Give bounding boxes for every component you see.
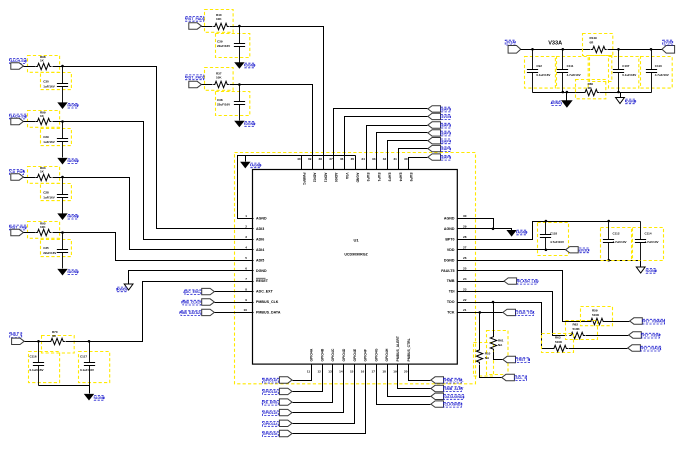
junction C116 [37, 340, 40, 343]
svg-text:DGND: DGND [444, 258, 455, 262]
tag PLT_V3MAIN [630, 318, 643, 324]
net label GPIO10# [263, 432, 279, 437]
net label 3ACH-SW (input 2) [10, 114, 28, 119]
svg-text:RST_PAD1: RST_PAD1 [186, 17, 205, 21]
resistor R149 0R [591, 46, 607, 52]
tag PMB_CTRL [431, 377, 444, 383]
svg-text:DGND: DGND [256, 269, 267, 273]
svg-text:GPIO4B: GPIO4B [320, 348, 324, 361]
AGND label [68, 159, 79, 164]
input tag RST_PAD1 [189, 23, 202, 29]
input tag 3V3A [508, 46, 521, 54]
svg-text:ADI4: ADI4 [256, 248, 264, 252]
yellow box around resistor R99 [28, 111, 60, 128]
ground AGND (filled) [57, 102, 67, 109]
svg-text:GPIO10#: GPIO10# [263, 432, 278, 436]
svg-text:C110: C110 [655, 64, 662, 68]
yellow box around capacitor C117 [79, 352, 110, 383]
svg-text:SMB_ALRT: SMB_ALRT [445, 387, 465, 391]
tag ADC_ENC [202, 288, 215, 294]
wire pin25 FAULT5 to R59 [458, 271, 592, 322]
wire top rail right segment [608, 49, 663, 51]
wire tag to resistor [24, 121, 36, 123]
DGND label [626, 99, 637, 104]
svg-text:17: 17 [372, 370, 376, 374]
net label EAP2 [441, 123, 451, 128]
svg-text:EAP5: EAP5 [442, 147, 451, 151]
yellow box around capacitor C107 [609, 57, 639, 89]
svg-text:30: 30 [463, 214, 467, 218]
ground AGND (filled) [506, 230, 516, 237]
junction C112 top [607, 220, 610, 223]
svg-text:10K: 10K [40, 225, 46, 229]
wire tag EAP6 to U1 top pin [409, 158, 428, 170]
wire R62 to tag [586, 335, 629, 337]
svg-text:GPIO4G: GPIO4G [374, 348, 378, 361]
svg-text:GPIO4F: GPIO4F [364, 349, 368, 361]
svg-text:ADC_ENC: ADC_ENC [183, 290, 200, 294]
svg-text:28: 28 [463, 235, 467, 239]
svg-text:18: 18 [382, 370, 386, 374]
svg-text:12: 12 [317, 370, 321, 374]
svg-text:3V3V: 3V3V [442, 115, 451, 119]
wire tag EAP3 to U1 top pin [377, 133, 428, 170]
svg-text:16: 16 [361, 370, 365, 374]
input tag PSU_V [12, 338, 25, 344]
svg-text:AGND: AGND [252, 163, 263, 167]
svg-text:23: 23 [463, 287, 467, 291]
svg-text:PWRFC: PWRFC [302, 173, 306, 186]
svg-text:6: 6 [245, 266, 247, 270]
svg-text:25: 25 [463, 266, 467, 270]
DGND label [116, 287, 127, 292]
svg-text:ADI6: ADI6 [256, 237, 264, 241]
RESET pin name overline [256, 277, 266, 279]
ground AGND (filled) [84, 394, 94, 401]
svg-text:24: 24 [463, 277, 467, 281]
wire tag ADC_ENC to U1 pin 8 [215, 291, 254, 293]
wire tag to resistor [24, 232, 36, 234]
wire stage to U1 top pin [230, 85, 313, 170]
net label EAP5 [441, 147, 451, 152]
svg-text:C117: C117 [80, 355, 87, 359]
resistor R40 10K [213, 23, 229, 29]
junction on V33A rail [650, 48, 653, 51]
wire tag 3V3V to U1 top pin [345, 117, 428, 170]
svg-text:PMB_CLK2: PMB_CLK2 [181, 301, 200, 305]
svg-text:C30: C30 [43, 80, 49, 84]
tag PMB_CLK2 [202, 299, 215, 305]
svg-text:30: 30 [404, 157, 408, 161]
svg-text:ADI5: ADI5 [256, 258, 264, 262]
yellow box around capacitor C29 [41, 129, 72, 146]
ground rail wire [39, 386, 90, 394]
svg-text:C92: C92 [536, 64, 542, 68]
resistor R10 NA [476, 348, 482, 364]
svg-text:PMB_CTRL: PMB_CTRL [445, 379, 465, 383]
svg-text:AGND: AGND [256, 217, 267, 221]
svg-text:EAP4: EAP4 [398, 173, 402, 182]
svg-text:DATA/GND8: DATA/GND8 [445, 395, 465, 399]
wire tag EAP5 to U1 top pin [399, 149, 428, 170]
wire tag DATA/GND8 to U1 bottom pin 18 [388, 365, 431, 397]
net label EAP6 [441, 155, 451, 160]
svg-text:10K: 10K [216, 17, 222, 21]
yellow box around resistor R63 [542, 334, 574, 353]
input tag C8_PWR [11, 174, 24, 180]
wire V33A bottom ground rail right [600, 92, 652, 94]
tag EAP3 [428, 130, 441, 136]
yellow box around capacitor C116 [29, 352, 60, 383]
wire stage4 to U1 pin 5 [53, 233, 254, 261]
ground DGND (open triangle) [124, 284, 133, 290]
AGND label at U1 top-left [251, 163, 262, 168]
junction [61, 231, 64, 234]
svg-text:EAP3: EAP3 [442, 132, 451, 136]
yellow highlight box around U1 section [235, 153, 476, 384]
svg-text:3V3A: 3V3A [506, 41, 515, 45]
svg-text:7: 7 [245, 277, 247, 281]
svg-text:PLT_V3AUX: PLT_V3AUX [642, 347, 663, 351]
wire pin21 TCK to tag JTAG_TCK [458, 312, 503, 314]
svg-text:GPIO14#: GPIO14# [263, 379, 278, 383]
svg-text:11: 11 [307, 370, 311, 374]
svg-text:DGND: DGND [116, 287, 127, 291]
net label DATA/GND8 [444, 395, 465, 400]
yellow box around resistor R98 [28, 56, 60, 73]
tag GPIO14# [279, 377, 292, 383]
svg-text:35: 35 [351, 157, 355, 161]
svg-text:10: 10 [244, 308, 248, 312]
U1 top pin names (rotated) [302, 173, 413, 186]
svg-text:EAP1: EAP1 [377, 173, 381, 182]
svg-text:4.7uF/10V: 4.7uF/10V [655, 73, 669, 77]
junction on V33A rail [531, 48, 534, 51]
net label GPIO11# [263, 422, 279, 427]
svg-text:ADI01: ADI01 [323, 173, 327, 183]
svg-text:BPT0: BPT0 [445, 237, 454, 241]
svg-text:RESET: RESET [256, 279, 269, 283]
svg-text:TCK: TCK [447, 311, 455, 315]
wire tag GPIO12# to U1 bottom pin 14 [293, 365, 344, 413]
capacitor C38 22uF/16V [234, 85, 245, 121]
junction R10 [479, 311, 482, 314]
svg-text:AGND: AGND [69, 159, 80, 163]
svg-text:RST_PAD2: RST_PAD2 [186, 75, 205, 79]
svg-text:C111: C111 [567, 64, 574, 68]
svg-text:C116: C116 [30, 355, 37, 359]
svg-text:26: 26 [463, 256, 467, 260]
net label RST_PAD1 [186, 16, 205, 21]
wire pin30/29 AGND to ground [458, 219, 494, 229]
svg-text:ADI02: ADI02 [313, 173, 317, 183]
net label JXE_ENG [261, 400, 278, 405]
svg-text:TMB: TMB [447, 279, 455, 283]
svg-text:PSU_V: PSU_V [11, 333, 23, 337]
wire tag to resistor [24, 66, 36, 68]
svg-text:15: 15 [350, 370, 354, 374]
capacitor C29 1uF/16V [57, 122, 68, 158]
svg-text:SCL_B: SCL_B [516, 376, 528, 380]
svg-text:EAP6: EAP6 [442, 156, 451, 160]
capacitor C112 4.7uF/10V [603, 222, 614, 261]
net label EAP1 [441, 107, 451, 112]
svg-text:8: 8 [245, 287, 247, 291]
U1 right pin names [441, 217, 455, 315]
svg-text:510K: 510K [573, 327, 581, 331]
junction C107 bottom [617, 91, 620, 94]
op-amp U1 body (UCD9090 IC outline) [253, 170, 458, 365]
svg-text:21: 21 [463, 308, 467, 312]
svg-text:EAP2: EAP2 [366, 173, 370, 182]
svg-text:40: 40 [297, 157, 301, 161]
net label SCL_B [515, 376, 528, 381]
net label PMB_CLK2 [181, 300, 201, 305]
svg-text:DGND: DGND [647, 269, 658, 273]
net label PMB_DATA2 [179, 311, 201, 316]
yellow box around capacitor C111 [557, 57, 589, 89]
wire tag CLK/GND8 to U1 bottom pin 17 [377, 365, 431, 405]
svg-text:GPIO13#: GPIO13# [263, 390, 278, 394]
wire TCK junction through R10 to tag SCL_B [479, 313, 481, 349]
junction [61, 176, 64, 179]
yellow box around resistor R40 [205, 10, 234, 33]
U1 right pin numbers 30-21 [463, 214, 467, 312]
wire R61 to tag [494, 352, 503, 360]
svg-text:CLK/GND8: CLK/GND8 [445, 403, 463, 407]
svg-text:V3A: V3A [345, 173, 349, 180]
svg-text:DGND: DGND [246, 63, 257, 67]
input tag RST_PAD [11, 229, 24, 235]
svg-text:R37: R37 [216, 71, 222, 75]
net label RST_PAD (input 4) [10, 225, 28, 230]
wire TDO junction through R61 to tag TRST_B [493, 303, 495, 336]
yellow box around resistor R95 [28, 222, 60, 239]
yellow box around capacitor C38 [216, 92, 250, 116]
tag GPIO12# [279, 409, 292, 415]
tag 3V3V [428, 113, 441, 119]
svg-text:PLT_V3SW: PLT_V3SW [643, 334, 662, 338]
svg-text:0.1uF/16V: 0.1uF/16V [30, 368, 44, 372]
svg-text:R149: R149 [590, 36, 598, 40]
svg-text:9: 9 [245, 298, 247, 302]
net label 3V3D [579, 248, 589, 253]
svg-text:22uF/16V: 22uF/16V [43, 251, 56, 255]
tag EAP1 [428, 106, 441, 112]
svg-text:AGND: AGND [518, 230, 529, 234]
svg-text:AGND: AGND [444, 227, 455, 231]
tag PLT_V3SW [629, 332, 642, 338]
svg-text:V33A: V33A [548, 41, 562, 47]
svg-text:3V3D: 3V3D [580, 248, 589, 252]
yellow box around resistor R59 [581, 307, 613, 326]
wire top pin 40 stub to AGND rail [301, 156, 303, 170]
net label GPIO14# [263, 378, 279, 383]
resistor R62 510K [569, 332, 585, 338]
junction [238, 83, 241, 86]
AGND label [68, 103, 79, 108]
svg-text:510K: 510K [592, 313, 600, 317]
wire top pin 35 stub to AGND rail [355, 156, 357, 170]
tag GPIO13# [279, 388, 292, 394]
svg-text:AGND: AGND [69, 270, 80, 274]
svg-text:C35: C35 [43, 246, 49, 250]
ground DGND (filled) [234, 121, 244, 128]
resistor R93 1K [36, 174, 52, 180]
svg-text:0.1uF/16V: 0.1uF/16V [622, 73, 636, 77]
yellow box around capacitor C112 [601, 228, 632, 261]
net label C8_PWR (input 3) [10, 170, 26, 175]
svg-text:GPIO4A: GPIO4A [310, 348, 314, 361]
svg-text:GPIO4H: GPIO4H [385, 348, 389, 361]
svg-text:AGND: AGND [95, 396, 106, 400]
yellow box around capacitor C110 [641, 57, 673, 89]
svg-text:UCD9090RGZ: UCD9090RGZ [344, 253, 368, 257]
svg-text:37: 37 [329, 157, 333, 161]
tag EAP4 [428, 138, 441, 144]
resistor R99 1K [36, 118, 52, 124]
svg-text:TDI: TDI [449, 290, 455, 294]
wire pin26 DGND rail [458, 261, 641, 268]
net label RST_PAD2 [186, 75, 205, 80]
svg-text:10K: 10K [216, 76, 222, 80]
svg-text:39: 39 [308, 157, 312, 161]
svg-text:AGND: AGND [69, 104, 80, 108]
yellow box around resistor R149 [583, 34, 613, 56]
capacitor C116 0.1uF/16V [33, 342, 44, 386]
net label TRST_B [516, 358, 531, 363]
U1 left pin numbers 1-10 [244, 214, 248, 312]
svg-text:22uF/16V: 22uF/16V [217, 103, 230, 107]
tag GPIO10# [279, 430, 292, 436]
svg-text:510K: 510K [555, 340, 563, 344]
capacitor C39 22uF/16V [234, 27, 245, 63]
net label FLASH_LED [517, 279, 539, 284]
resistor R61 NA [490, 335, 496, 351]
wire tag to resistor [202, 84, 213, 86]
capacitor C114 4.7uF/10V [635, 222, 646, 261]
yellow box around capacitor C114 [633, 228, 664, 261]
input tag 3ACH-SW [11, 118, 24, 124]
svg-text:R40: R40 [216, 13, 222, 17]
tag EAP5 [428, 145, 441, 151]
yellow box around capacitor C118 [538, 223, 569, 256]
AGND label [551, 101, 562, 106]
wire pin23 TDI to R62 [458, 292, 567, 336]
U1 left pin names [256, 217, 281, 315]
net label GPIO12# [263, 411, 279, 416]
svg-text:13: 13 [328, 370, 332, 374]
ground AGND (filled) [57, 158, 67, 165]
capacitor C117 0.1uF/16V [84, 342, 95, 386]
junction C112 bottom [607, 259, 610, 262]
yellow box around capacitor C28 [41, 184, 72, 201]
wire tag JXE_ENG to U1 bottom pin 13 [293, 365, 333, 403]
junction on V33A rail [617, 48, 620, 51]
resistor R60 0R [583, 89, 599, 95]
wire V33A top rail [521, 49, 591, 51]
net label JTAG_TCK [516, 311, 535, 316]
svg-text:AGND: AGND [444, 217, 455, 221]
svg-text:C29: C29 [43, 135, 49, 139]
ground AGND (filled) under C111 [566, 93, 568, 101]
tag DATA/GND8 [431, 393, 444, 399]
svg-text:PMBUS_CTRL: PMBUS_CTRL [407, 338, 411, 361]
svg-text:EAP1: EAP1 [442, 108, 451, 112]
junction on V33A rail [562, 48, 565, 51]
net label PLT_V3AUX [641, 346, 662, 351]
net label EAP3 [441, 131, 451, 136]
wire stage2 to U1 pin 3 [53, 122, 254, 240]
tag 3V3D (VDD) [566, 247, 579, 253]
wire stage to U1 top pin [230, 27, 324, 170]
svg-text:C28: C28 [43, 191, 49, 195]
wire tag EAP2 to U1 top pin [367, 126, 428, 170]
junction C117 [88, 340, 91, 343]
svg-text:3: 3 [245, 235, 247, 239]
svg-text:33: 33 [372, 157, 376, 161]
yellow box around capacitor C35 [41, 240, 72, 257]
svg-text:20: 20 [404, 370, 408, 374]
net label EAP4 [441, 139, 451, 144]
DGND label [245, 63, 256, 68]
yellow box around resistor R37 [205, 68, 234, 91]
U1 top pin numbers (rotated) [297, 157, 408, 161]
svg-text:1uF/16V: 1uF/16V [43, 140, 55, 144]
svg-text:C112: C112 [613, 231, 620, 235]
wire tag EAP1 to U1 top pin [334, 109, 428, 170]
ground DGND (filled) [234, 62, 244, 69]
svg-text:22: 22 [463, 298, 467, 302]
resistor R70 0R [49, 338, 65, 344]
AGND label [68, 270, 79, 275]
wire tag GPIO11# to U1 bottom pin 15 [293, 365, 355, 424]
svg-text:GPIO4C: GPIO4C [331, 348, 335, 361]
wire stage3 to U1 pin 4 [53, 178, 254, 250]
junction C111 bottom [562, 91, 565, 94]
tag PLT_V3AUX [628, 345, 641, 351]
capacitor C118 4.7uF/10V [540, 222, 551, 250]
ground AGND (filled) [57, 213, 67, 220]
svg-text:4.7uF/10V: 4.7uF/10V [567, 73, 581, 77]
U1 bottom pin numbers (rotated) [307, 370, 408, 374]
wire pin22 TDO to R63 [458, 303, 553, 349]
yellow box around capacitor C30 [41, 73, 72, 90]
wire R59 to tag [604, 321, 630, 323]
yellow box around resistor R70 [42, 336, 75, 354]
wire pin27 VDD to tag [458, 249, 566, 251]
ground DGND (open triangle) [636, 267, 645, 273]
svg-text:FAULT5: FAULT5 [441, 269, 454, 273]
wire tag GPIO14# to U1 bottom pin 11 [293, 365, 312, 381]
svg-text:U1: U1 [353, 238, 359, 243]
svg-text:34: 34 [361, 157, 365, 161]
tag EAP6 [428, 154, 441, 160]
net label 3V3V [441, 115, 451, 120]
svg-text:PLT_V3MAIN: PLT_V3MAIN [644, 320, 666, 324]
AGND label [94, 396, 105, 401]
svg-text:1uF/16V: 1uF/16V [43, 196, 55, 200]
junction [61, 120, 64, 123]
wire tag to R70 [25, 341, 50, 343]
capacitor C30 1uF/16V [57, 67, 68, 103]
wire tag SMB_ALRT to U1 bottom pin 19 [398, 365, 431, 389]
capacitor C110 4.7uF/10V [646, 50, 657, 93]
svg-text:4.7uF/10V: 4.7uF/10V [613, 240, 627, 244]
svg-text:AGND: AGND [356, 173, 360, 184]
wire pin28 BPT0 to bypass rail [458, 222, 641, 240]
svg-text:38: 38 [319, 157, 323, 161]
